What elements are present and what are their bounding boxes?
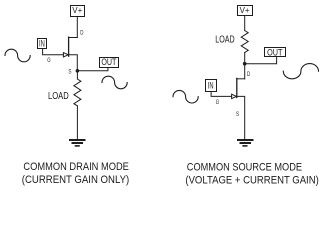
svg-text:G: G <box>216 99 220 106</box>
svg-text:D: D <box>80 29 84 36</box>
svg-text:(VOLTAGE + CURRENT GAIN): (VOLTAGE + CURRENT GAIN) <box>185 175 318 187</box>
node D junction dot (right) <box>243 62 247 66</box>
svg-text:S: S <box>68 68 71 75</box>
wire IN to gate (right) <box>211 92 232 97</box>
input sine source (left) <box>5 49 30 62</box>
node S junction dot (left) <box>76 69 80 73</box>
wire resistor to node D (right) <box>244 53 246 64</box>
wire V+ to resistor (right) <box>244 16 246 31</box>
OUT box (right) <box>265 47 286 57</box>
resistor LOAD (left) <box>74 79 81 106</box>
svg-text:IN: IN <box>208 81 214 91</box>
ground (right) <box>238 140 253 146</box>
svg-text:S: S <box>236 111 239 118</box>
transistor Q2 N-JFET (right) <box>232 78 245 98</box>
transistor Q1 N-JFET (left) <box>63 37 77 57</box>
wire node S to OUT (left) <box>77 68 108 71</box>
OUT box (left) <box>100 57 119 67</box>
svg-text:LOAD: LOAD <box>215 35 234 46</box>
svg-text:G: G <box>47 57 51 64</box>
wire resistor to ground (left) <box>76 106 78 139</box>
svg-text:D: D <box>247 71 251 78</box>
IN box (right) <box>206 80 217 92</box>
IN box (left) <box>38 38 47 48</box>
wire V+ to drain (left) <box>76 17 78 38</box>
ground (left) <box>70 140 85 146</box>
wire IN to gate (left) <box>43 49 64 55</box>
svg-text:OUT: OUT <box>101 57 116 67</box>
svg-text:LOAD: LOAD <box>48 91 69 102</box>
svg-text:V+: V+ <box>72 5 82 15</box>
wire node D to drain (right) <box>244 64 246 79</box>
input sine source (right) <box>173 90 198 103</box>
svg-text:IN: IN <box>39 38 45 48</box>
wire node D to OUT (right) <box>245 57 277 64</box>
source wire to ground (right) <box>237 96 245 138</box>
svg-text:V+: V+ <box>240 5 250 15</box>
wire source lead to node S (left) <box>69 55 78 71</box>
svg-text:(CURRENT GAIN ONLY): (CURRENT GAIN ONLY) <box>22 174 129 186</box>
output sine amplified inverted (right) <box>283 64 318 79</box>
V+ power box V+ (left) <box>71 5 85 16</box>
svg-text:OUT: OUT <box>267 47 283 57</box>
resistor LOAD (right) <box>241 31 248 53</box>
output sine (left) <box>102 76 127 89</box>
wire node S to resistor (left) <box>76 71 78 79</box>
V+ power box V+ (right) <box>238 5 253 15</box>
svg-text:COMMON SOURCE MODE: COMMON SOURCE MODE <box>187 161 302 173</box>
svg-text:COMMON DRAIN MODE: COMMON DRAIN MODE <box>23 161 128 173</box>
